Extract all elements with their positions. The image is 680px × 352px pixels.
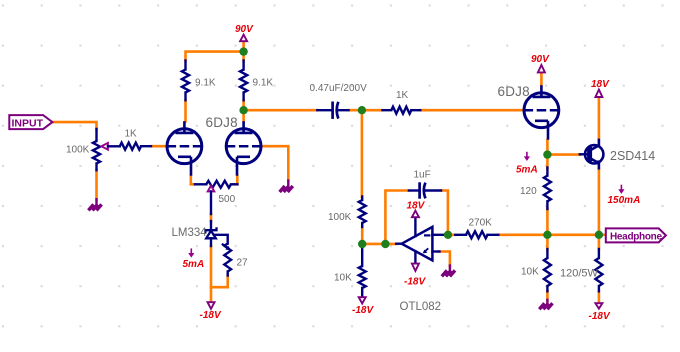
wire C1 to R3 bbox=[348, 109, 382, 112]
wire R1 top corner to 90V node bbox=[186, 52, 244, 61]
resistor 27 bbox=[224, 244, 231, 272]
svg-text:6DJ8: 6DJ8 bbox=[498, 84, 530, 99]
svg-text:-18V: -18V bbox=[352, 305, 374, 316]
op-amp U1 OTL082 bbox=[402, 227, 433, 261]
wire LM334 to -18V bbox=[210, 246, 213, 302]
power arrow 90V left bbox=[240, 35, 247, 42]
wire R1 bottom to tube1 plate bbox=[184, 100, 187, 121]
resistor 270K bbox=[455, 234, 466, 236]
wire node down to R9 bbox=[598, 235, 601, 250]
svg-text:1K: 1K bbox=[125, 129, 138, 140]
power arrow -18V opamp bbox=[412, 264, 419, 271]
LM334 arrow bbox=[222, 244, 228, 248]
svg-text:5mA: 5mA bbox=[516, 165, 538, 176]
wire 18V arrow to Q1 collector bbox=[598, 98, 601, 139]
wire feedback loop right bbox=[441, 191, 448, 235]
ground tube2 grid bbox=[280, 186, 285, 192]
node feedback bbox=[381, 240, 389, 248]
potentiometer 100K bbox=[95, 129, 97, 141]
wire R8 ground stem bbox=[546, 300, 548, 303]
power arrow -18V left bbox=[208, 302, 215, 309]
svg-text:90V: 90V bbox=[235, 24, 254, 35]
resistor 1K left bbox=[120, 143, 141, 150]
node headphone 1 bbox=[543, 231, 551, 239]
svg-text:INPUT: INPUT bbox=[12, 118, 44, 130]
wire opamp noninv to ground bbox=[439, 252, 450, 267]
svg-text:18V: 18V bbox=[407, 200, 426, 211]
wire R7 to headphone row bbox=[546, 209, 549, 235]
svg-text:500: 500 bbox=[219, 194, 236, 205]
wire feedback loop left/top bbox=[385, 191, 409, 244]
ground op-amp noninv bbox=[442, 270, 447, 276]
svg-text:-18V: -18V bbox=[200, 310, 222, 321]
node Q1 base bbox=[543, 150, 551, 158]
svg-text:270K: 270K bbox=[469, 218, 493, 229]
svg-text:Headphone: Headphone bbox=[610, 231, 662, 242]
svg-text:100K: 100K bbox=[328, 212, 352, 223]
power arrow -18V right bbox=[595, 303, 602, 308]
wire opamp ground stem bbox=[449, 266, 451, 271]
current source LM334 bbox=[210, 221, 212, 230]
svg-text:150mA: 150mA bbox=[608, 195, 641, 206]
node A bbox=[358, 106, 366, 114]
svg-text:120/5W: 120/5W bbox=[560, 268, 599, 280]
power arrow 18V right bbox=[595, 90, 602, 97]
resistor 9.1K left bbox=[184, 61, 186, 70]
LM334 R-set branch bbox=[214, 235, 228, 244]
wire node down to R7 bbox=[546, 155, 549, 169]
svg-text:5mA: 5mA bbox=[183, 259, 205, 270]
wire node to C1 bbox=[244, 109, 318, 112]
triode V1b 6DJ8 bbox=[226, 129, 261, 164]
resistor 120/5W bbox=[598, 249, 600, 258]
wire node to Q1 base bbox=[547, 153, 580, 156]
svg-text:OTL082: OTL082 bbox=[400, 301, 442, 313]
wire 90V arrow to V2 plate bbox=[540, 73, 543, 85]
svg-text:-18V: -18V bbox=[589, 311, 611, 322]
node 90V junction bbox=[239, 47, 247, 55]
node opamp inv bbox=[444, 231, 452, 239]
resistor 1K middle bbox=[383, 109, 392, 111]
resistor 120 bbox=[546, 168, 548, 176]
current arrow 5mA left bbox=[190, 248, 192, 254]
power arrow 18V opamp bbox=[412, 211, 419, 218]
node plate junction bbox=[239, 106, 247, 114]
wire V2 cathode down bbox=[546, 140, 549, 155]
svg-text:10K: 10K bbox=[334, 273, 352, 284]
wire pot ground stem bbox=[95, 199, 97, 204]
wire 270K to headphone row bbox=[498, 234, 607, 237]
svg-text:27: 27 bbox=[237, 258, 249, 269]
wire opamp inv to 270K bbox=[445, 234, 456, 237]
triode V1a 6DJ8 bbox=[167, 129, 202, 164]
svg-text:0.47uF/200V: 0.47uF/200V bbox=[310, 83, 368, 94]
svg-text:18V: 18V bbox=[591, 79, 610, 90]
wire tube2 grid to ground bbox=[262, 146, 289, 181]
wire pot bottom to ground bbox=[95, 170, 98, 200]
resistor 10K right bbox=[546, 249, 548, 258]
svg-text:2SD414: 2SD414 bbox=[610, 149, 655, 163]
capacitor C2 1uF bbox=[409, 189, 418, 191]
resistor 10K middle bbox=[361, 244, 363, 266]
wire R2 bottom to tube2 plate bbox=[242, 100, 245, 121]
current arrow 5mA right bbox=[526, 152, 528, 158]
svg-text:100K: 100K bbox=[66, 145, 90, 156]
node headphone 2 bbox=[595, 231, 603, 239]
port Headphone bbox=[606, 228, 666, 242]
svg-text:10K: 10K bbox=[521, 267, 539, 278]
wire node A down to R4 bbox=[361, 110, 364, 197]
svg-text:9.1K: 9.1K bbox=[195, 78, 216, 89]
wire output row bbox=[362, 243, 396, 246]
svg-text:LM334: LM334 bbox=[172, 227, 208, 239]
svg-text:1K: 1K bbox=[396, 90, 409, 101]
wire node down to R8 bbox=[546, 235, 549, 250]
wire tube2 ground stem bbox=[287, 181, 289, 186]
potentiometer 500 bbox=[195, 183, 206, 185]
ground under 100K pot bbox=[88, 204, 93, 210]
wire tube1 cathode corner bbox=[191, 176, 195, 185]
wire R3 to V2 grid bbox=[420, 109, 524, 112]
triode V2 6DJ8 bbox=[524, 93, 559, 128]
power arrow -18V mid bbox=[359, 297, 366, 303]
wire input to pot bbox=[52, 122, 96, 129]
power arrow 90V right bbox=[538, 65, 545, 72]
resistor 9.1K right bbox=[242, 61, 244, 70]
svg-text:1uF: 1uF bbox=[414, 170, 431, 181]
ground under 10K right bbox=[539, 303, 544, 309]
wire R4 to node B bbox=[361, 227, 364, 245]
svg-text:-18V: -18V bbox=[404, 277, 426, 288]
svg-text:6DJ8: 6DJ8 bbox=[206, 115, 238, 130]
svg-text:90V: 90V bbox=[531, 54, 550, 65]
svg-text:120: 120 bbox=[520, 186, 537, 197]
port INPUT bbox=[9, 115, 52, 129]
node B bbox=[358, 240, 366, 248]
svg-text:9.1K: 9.1K bbox=[253, 78, 274, 89]
resistor 100K middle bbox=[361, 197, 363, 201]
current arrow 150mA bbox=[620, 185, 622, 191]
wire wiper to tube1 grid bbox=[151, 145, 167, 148]
wire R9 to -18V arrow bbox=[598, 291, 601, 303]
capacitor C1 0.47uF/200V bbox=[317, 109, 331, 111]
wire R8 to ground bbox=[546, 291, 549, 301]
wire pot wiper gap bbox=[210, 214, 213, 222]
wire 27 bottom corner bbox=[211, 275, 228, 287]
wire Q1 emitter to headphone row bbox=[598, 169, 601, 235]
wire 90V arrow stem bbox=[242, 41, 245, 61]
wire tube2 cathode corner bbox=[233, 176, 237, 185]
transistor Q1 2SD414 bbox=[585, 145, 603, 163]
